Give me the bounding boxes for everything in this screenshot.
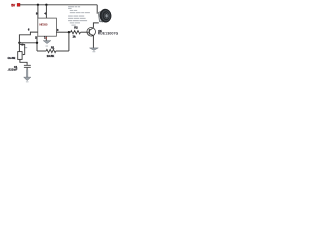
transistor Q1 base bar xyxy=(88,29,90,34)
potentiometer wiper loop wire xyxy=(20,44,25,54)
wire pin 4 xyxy=(45,5,47,18)
svg-text:.022uF: .022uF xyxy=(8,68,18,72)
node junction left xyxy=(18,42,20,44)
pin 1 red tick xyxy=(46,37,47,38)
pin 1 stub xyxy=(45,36,47,40)
annotation note text xyxy=(68,6,90,25)
capacitor C1 plates xyxy=(24,64,31,66)
transistor Q1 emitter stroke with arrow xyxy=(89,33,93,35)
wire R1 right lead xyxy=(56,50,69,52)
wire R2 to base xyxy=(81,31,90,33)
op-amp timer IC U1 NE555 body xyxy=(38,18,57,36)
wire R1 loop vertical xyxy=(68,32,70,51)
power net 5V terminal square xyxy=(17,3,20,6)
speaker LS1 xyxy=(98,8,112,23)
node junction rail pin4 xyxy=(45,4,47,6)
node junction output xyxy=(68,31,70,33)
potentiometer wiper arrow xyxy=(23,54,25,56)
transistor Q1 collector stroke xyxy=(89,28,93,31)
ground G3 (emitter) xyxy=(90,48,99,52)
wire speaker top lead xyxy=(96,5,98,14)
svg-text:4 to 30k: 4 to 30k xyxy=(7,57,16,60)
wire pin 6 staircase xyxy=(19,32,37,52)
node junction pin2 xyxy=(36,42,38,44)
wire output pin 3 xyxy=(56,31,70,33)
svg-text:13.5K: 13.5K xyxy=(47,54,55,58)
ground G1 (pin1) xyxy=(43,41,51,47)
wire pin 2 down xyxy=(36,36,38,51)
resistor R2 zigzag xyxy=(71,31,81,34)
wire 5V rail xyxy=(20,4,97,6)
wire R1 left lead xyxy=(37,50,46,52)
wire pin 8 xyxy=(37,5,39,18)
wire emitter to ground xyxy=(92,36,94,48)
wire mid horizontal pins2-6 xyxy=(19,42,37,44)
resistor R1 zigzag xyxy=(46,49,56,52)
node junction rail pin8 xyxy=(37,4,39,6)
potentiometer body xyxy=(18,52,22,60)
potentiometer wiper corner node xyxy=(21,44,23,46)
wire capacitor to ground xyxy=(26,68,28,71)
svg-text:NE555: NE555 xyxy=(39,23,48,27)
wire collector to speaker xyxy=(93,23,98,28)
wire pot to capacitor xyxy=(20,59,27,65)
transistor Q1 circle xyxy=(87,28,96,37)
ground G2 (C1) with thick stem xyxy=(24,70,31,83)
svg-text:MJE13007G: MJE13007G xyxy=(98,32,119,36)
